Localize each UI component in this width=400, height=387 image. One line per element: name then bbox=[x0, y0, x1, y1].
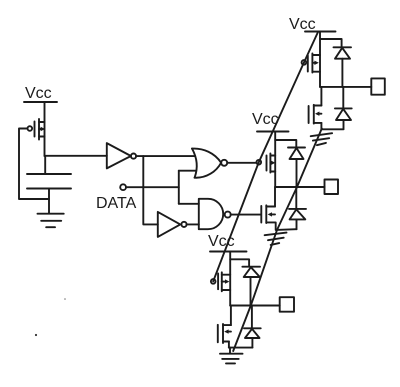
wire bottom NMOS source to ground bbox=[228, 342, 230, 348]
diagonal wire NMOS/ground line bbox=[233, 129, 322, 352]
svg-text:Vcc: Vcc bbox=[25, 85, 52, 102]
capacitor C (MOS cap) top plate bbox=[27, 173, 71, 175]
wire mid NMOS drain up to output bbox=[274, 187, 276, 207]
speck bbox=[35, 334, 37, 336]
svg-text:DATA: DATA bbox=[96, 195, 137, 212]
wire riser U1 output to inverter U2 input bbox=[143, 156, 158, 224]
wire rail down, branch to diode D3 bbox=[275, 132, 296, 148]
wire mid PMOS vertical bbox=[274, 140, 276, 187]
pad square (bottom) bbox=[280, 297, 294, 312]
diode D5 (output to Vcc clamp) bbox=[242, 267, 260, 306]
svg-text:Vcc: Vcc bbox=[252, 111, 279, 128]
transistor bottom PMOS gate bubble bbox=[211, 279, 216, 284]
node junction mid output/diode bbox=[295, 186, 298, 189]
transistor top PMOS bbox=[308, 54, 320, 73]
wire NAND output to mid NMOS gate bbox=[231, 214, 261, 216]
ground (left section) bbox=[38, 214, 64, 228]
wire mid output line to pad bbox=[275, 186, 324, 188]
ground (middle driver) bbox=[265, 233, 287, 245]
speck bbox=[64, 298, 66, 300]
diode D2 (ground to output clamp) bbox=[321, 87, 351, 129]
wire bottom PMOS vertical bbox=[229, 259, 231, 305]
Vcc rail bottom driver bbox=[210, 251, 247, 253]
node junction bottom output/diode bbox=[249, 304, 252, 307]
wire DATA to NOR lower input bbox=[179, 170, 196, 172]
diode D4 (ground to output clamp) bbox=[276, 187, 306, 230]
diode D1 (output to Vcc clamp) bbox=[334, 47, 352, 87]
transistor left PMOS gate bubble bbox=[28, 126, 33, 131]
wire gate feedback from bubble to cap bottom bbox=[19, 129, 49, 200]
wire left PMOS drain to inverter input bbox=[45, 155, 107, 157]
wire rail down, branch to diode D5 bbox=[230, 252, 249, 267]
wire DATA to NAND upper input bbox=[179, 203, 199, 205]
wire bottom NMOS drain up to output bbox=[230, 306, 232, 326]
transistor mid PMOS bbox=[267, 154, 276, 173]
transistor bottom PMOS bbox=[218, 272, 230, 291]
pad square (middle) bbox=[325, 180, 339, 195]
wire DATA to riser bbox=[126, 186, 179, 188]
Vcc rail left bbox=[24, 101, 57, 103]
wire top PMOS source/drain vertical bbox=[319, 39, 321, 87]
wire capacitor bottom to ground bbox=[48, 189, 50, 214]
diagonal wire PMOS gate line bbox=[213, 32, 318, 281]
transistor mid PMOS gate bubble bbox=[257, 160, 262, 165]
wire DATA riser bbox=[178, 171, 180, 204]
wire Vcc rail to left PMOS bbox=[44, 102, 46, 156]
wire rail down, branch to diode D1 bbox=[320, 32, 342, 48]
ground (top driver) bbox=[311, 133, 332, 145]
wire U1 output to NOR input bbox=[136, 155, 195, 157]
svg-text:Vcc: Vcc bbox=[289, 16, 316, 33]
node DATA terminal bbox=[120, 184, 126, 190]
ground (bottom driver) bbox=[220, 348, 243, 364]
wire NOR output to mid PMOS gate bbox=[227, 162, 256, 164]
transistor left PMOS bbox=[35, 119, 46, 140]
pad square (top) bbox=[371, 78, 385, 94]
NOR U3 output bubble bbox=[221, 160, 227, 166]
wire top NMOS source to ground bbox=[320, 123, 322, 129]
inverter U1 output bubble bbox=[131, 154, 136, 159]
transistor mid NMOS bbox=[261, 205, 275, 223]
diode D3 (output to Vcc clamp) bbox=[288, 148, 305, 188]
diode D6 (ground to output clamp) bbox=[229, 306, 261, 348]
transistor bottom NMOS bbox=[218, 324, 231, 343]
wire top output line to pad bbox=[320, 86, 371, 88]
wire drain node down to capacitor bbox=[44, 156, 46, 174]
transistor top NMOS bbox=[309, 105, 322, 124]
capacitor C bottom plate bbox=[27, 188, 71, 190]
NAND U4 output bubble bbox=[225, 212, 231, 218]
NAND gate U4 bbox=[199, 199, 223, 229]
inverter U1 bbox=[107, 143, 131, 168]
inverter U2 output bubble bbox=[181, 222, 186, 227]
inverter U2 bbox=[158, 212, 181, 237]
wire bottom output line to pad bbox=[230, 305, 280, 307]
Vcc rail top driver bbox=[305, 31, 336, 33]
transistor top PMOS gate bubble bbox=[302, 60, 307, 65]
Vcc rail middle driver bbox=[257, 131, 289, 133]
wire mid NMOS source to ground bbox=[275, 222, 277, 230]
wire top NMOS drain up to output bbox=[320, 87, 322, 106]
wire U2 output to NAND lower input bbox=[187, 223, 199, 225]
NOR gate U3 bbox=[192, 149, 221, 178]
svg-text:Vcc: Vcc bbox=[208, 233, 235, 250]
